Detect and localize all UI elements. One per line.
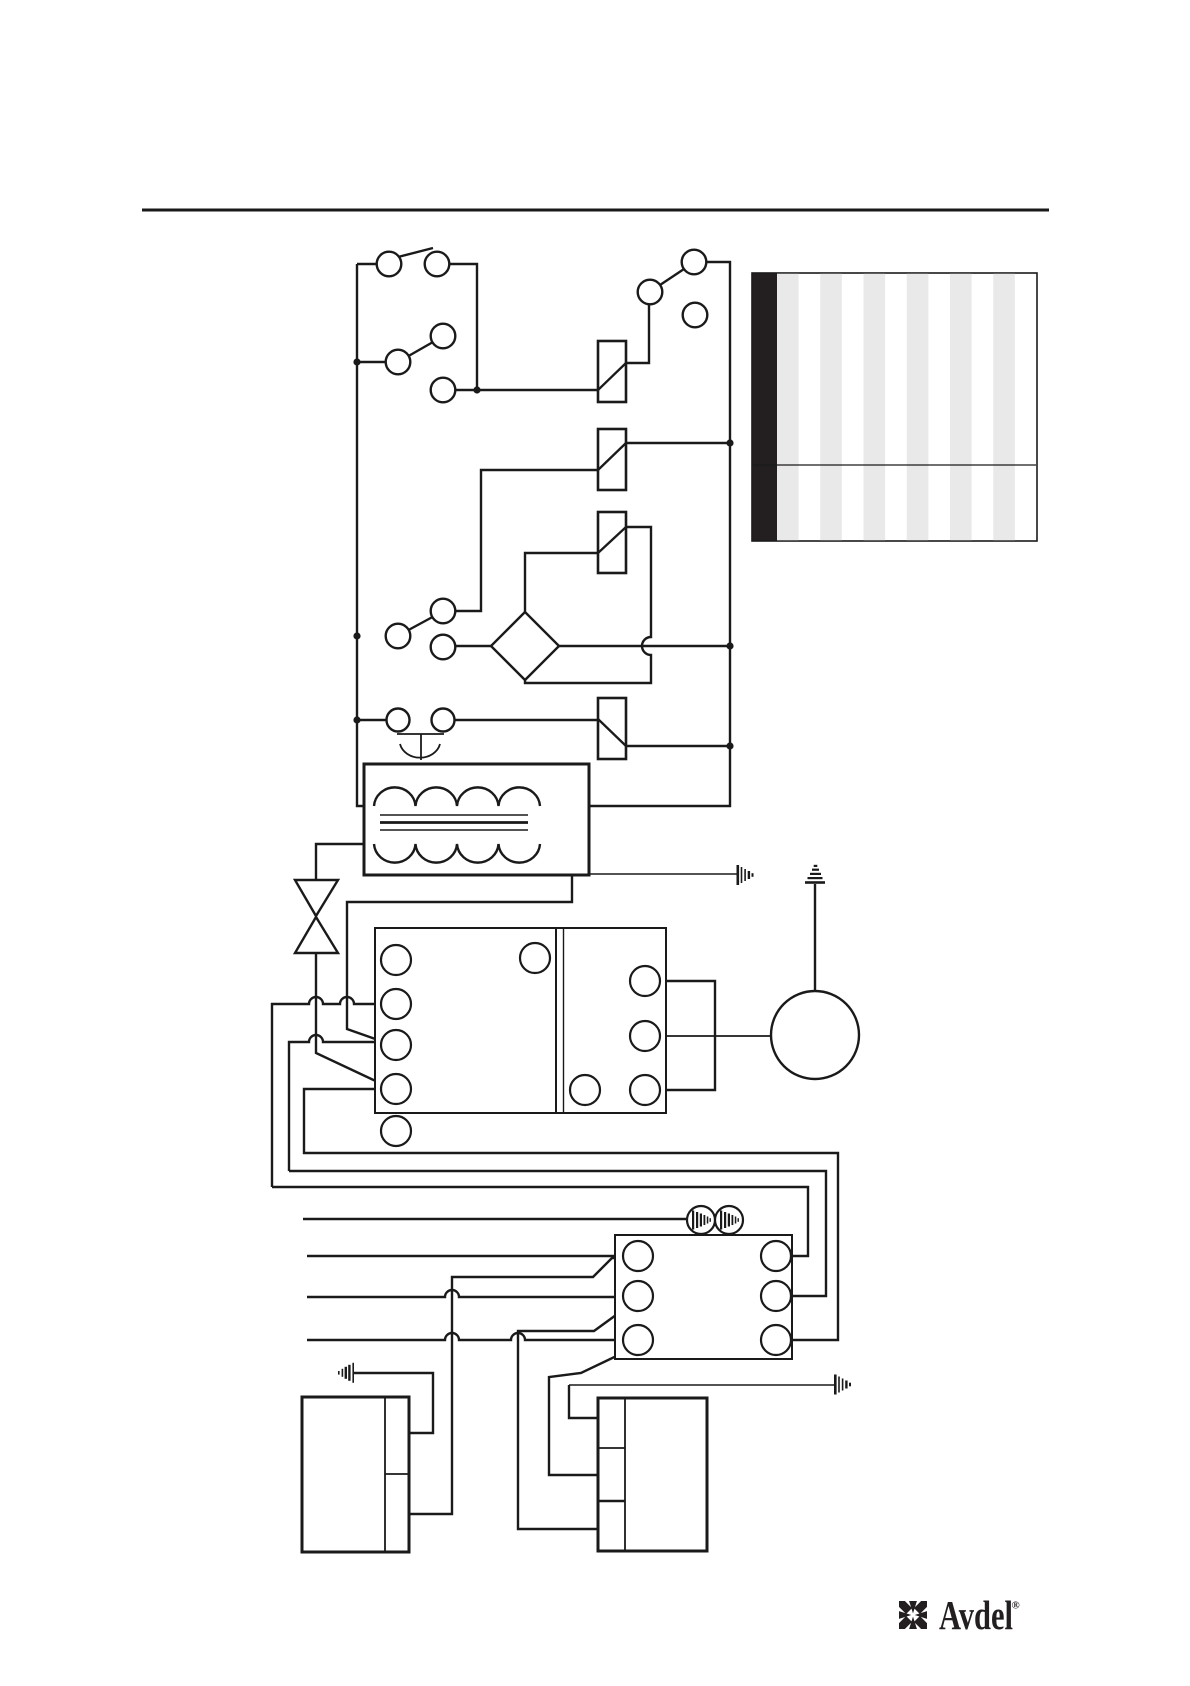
svg-text:Avdel: Avdel <box>939 1592 1013 1638</box>
svg-text:®: ® <box>1012 1600 1020 1612</box>
